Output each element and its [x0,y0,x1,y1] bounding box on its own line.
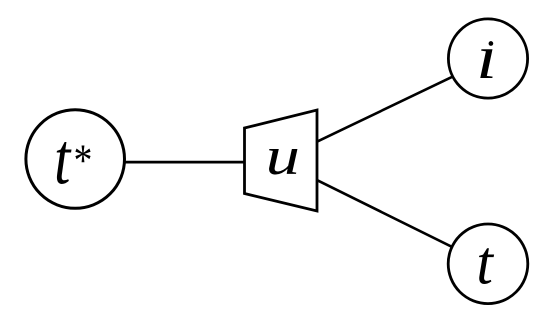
svg-text:t: t [476,230,495,298]
factor u trapezoid [245,110,318,211]
label i dot [489,41,494,46]
node i circle [448,19,527,98]
node t circle [448,224,528,304]
node t* circle [26,110,125,209]
label t [476,230,495,298]
label u [266,127,300,186]
svg-text:t: t [54,119,72,200]
label t* asterisk [72,136,91,186]
label i body [476,23,497,93]
svg-text:u: u [266,127,300,186]
wire u to t [280,162,488,265]
label t* letter t [54,119,72,200]
svg-text:ı: ı [476,23,497,93]
wire u to i [280,60,488,160]
svg-text:*: * [72,136,91,186]
wire t* to u [75,161,280,164]
